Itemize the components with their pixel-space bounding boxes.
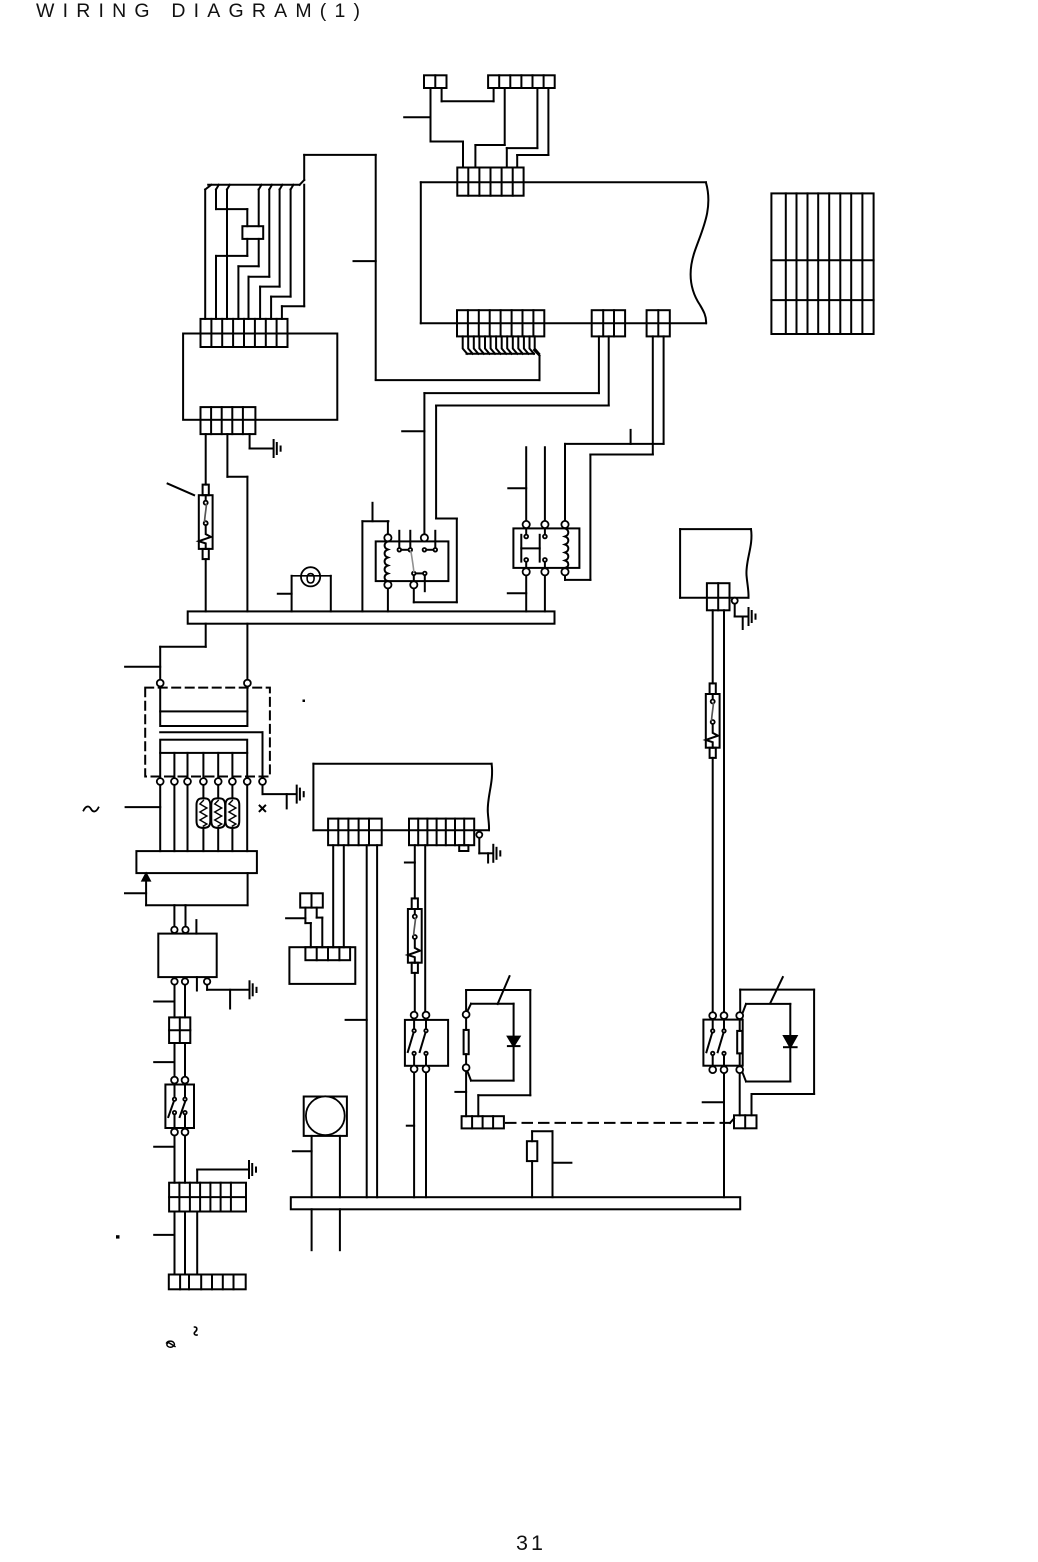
svg-text:WIRING DIAGRAM(1): WIRING DIAGRAM(1) (36, 0, 368, 22)
svg-text:31: 31 (516, 1531, 546, 1555)
